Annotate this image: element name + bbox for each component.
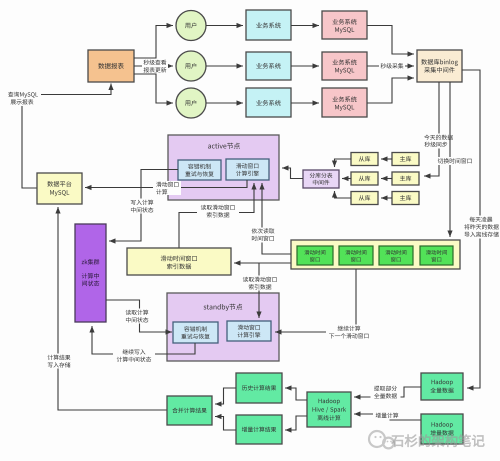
box 从库 1 (slave db) <box>351 153 378 166</box>
label 切换时间窗口 <box>435 157 475 165</box>
box 滑动时间窗口 4 <box>420 246 453 265</box>
box 合并计算结果 <box>167 396 212 425</box>
box 数据库binlog采集中间件 <box>417 50 462 82</box>
wire 业务系统MySQL2 -> binlog中间件 <box>367 63 414 68</box>
label 提取部分 全量数据 <box>371 385 401 400</box>
wire 索引数据 -> standby滑动窗口计算引擎 (读取索引) <box>256 263 261 318</box>
wire 主库2 -> 从库2 <box>381 176 392 181</box>
wire standby容错机制 -> zk集群 (继续写入计算中间状态) <box>89 326 195 354</box>
label 计算结果 写入存储 <box>44 354 74 369</box>
box 业务系统MySQL 2 <box>322 52 367 80</box>
wire 数据平台MySQL -> 数据报表 (query path) <box>22 84 114 189</box>
wire 数据报表 -> 用户1 <box>134 23 173 58</box>
wire 业务系统3 -> 业务系统MySQL3 <box>291 100 319 105</box>
box 业务系统 2 (business system) <box>246 52 291 80</box>
box 业务系统MySQL 1 <box>322 11 367 39</box>
wire zk集群 -> standby容错机制 (读取计算中间状态) <box>106 300 172 335</box>
label 读取计算 中间状态 <box>122 309 152 324</box>
wire Hive离线计算 -> 历史计算结果 <box>285 385 307 400</box>
container standby节点 <box>167 293 279 361</box>
wire 用户1 -> 业务系统1 <box>206 23 243 28</box>
box 历史计算结果 <box>236 373 282 403</box>
box 数据平台MySQL <box>37 173 82 204</box>
wire binlog中间件 -> 主库 (今天的数据同步) <box>424 82 439 179</box>
wire 历史计算结果 -> 合并计算结果 <box>215 388 236 407</box>
circle 用户 3 (user) <box>176 88 206 118</box>
label 秒级采集 <box>379 62 405 70</box>
wire 业务系统MySQL1 -> binlog中间件 <box>367 26 414 57</box>
box 主库 1 (master db) <box>392 153 419 166</box>
box 滑动时间窗口索引数据 <box>127 248 231 275</box>
wire Hive离线计算 -> 增量计算结果 <box>285 416 307 433</box>
circle 用户 2 (user) <box>176 51 206 81</box>
box zk集群 计算中间状态 <box>75 224 106 322</box>
watermark logo 石杉的架构笔记 <box>369 431 484 448</box>
box 业务系统MySQL 3 <box>322 88 367 117</box>
box Hadoop全量数据 <box>421 373 463 400</box>
label 查询MySQL 展示报表 <box>5 92 41 106</box>
box Hadoop增量数据 <box>421 414 463 444</box>
box 增量计算结果 <box>236 415 282 444</box>
wire binlog中间件 -> 滑动窗口容器 (切换时间窗口) <box>447 82 452 237</box>
label 继续计算 下一个滑动窗口 <box>326 325 372 340</box>
wire 容错机制 -> zk集群 (写入计算中间状态) <box>109 170 178 244</box>
label 继续写入 计算中间状态 <box>113 349 155 363</box>
wire 合并计算结果 -> 数据平台MySQL (计算结果写入存储) <box>55 207 167 410</box>
label 秒级查看 报表更新 <box>142 59 168 74</box>
wire binlog中间件 -> Hadoop全量数据 (每天凌晨导入) <box>462 70 480 391</box>
box 业务系统 3 (business system) <box>246 88 291 117</box>
box 主库 2 (master db) <box>392 172 419 185</box>
wire Hadoop全量数据 -> Hive离线计算 (提取部分全量数据) <box>354 387 421 400</box>
label 增量计算 <box>373 412 401 420</box>
label 写入计算 中间状态 <box>127 199 157 214</box>
box 滑动窗口计算引擎 (standby) <box>227 321 271 341</box>
label 每天凌晨 将昨天的数据 导入离线存储 <box>462 216 500 239</box>
wire 主库1 -> 从库1 <box>381 156 392 161</box>
box 滑动窗口计算引擎 (active) <box>226 159 269 180</box>
wire 滑动时间窗口2 -> standby引擎 (继续计算下一个滑动窗口) <box>275 269 356 335</box>
label 依次读取 时间窗口 <box>248 228 278 243</box>
wire 主库3 -> 从库3 <box>381 195 392 200</box>
wire 滑动窗口容器 -> 滑动窗口计算引擎 (依次读取) <box>259 183 291 254</box>
container active节点 <box>168 135 279 200</box>
label 读取滑动窗口 索引数据 <box>197 204 239 219</box>
wire 业务系统MySQL3 -> binlog中间件 <box>367 75 414 103</box>
wire 从库1 -> 分库分表中间件 <box>332 159 351 167</box>
wire 滑动窗口容器 -> 滑动时间窗口索引数据 <box>234 260 291 265</box>
box 滑动时间窗口 1 <box>297 246 333 265</box>
wire 从库2 -> 分库分表中间件 <box>342 176 351 181</box>
box 容错机制重试与恢复 (active) <box>178 160 221 180</box>
wire 滑动窗口计算引擎 -> 数据平台MySQL (滑动窗口计算) <box>85 180 247 190</box>
box 分库分表中间件 <box>303 170 339 188</box>
wire 用户2 -> 业务系统2 <box>206 63 243 68</box>
box Hadoop Hive/Spark 离线计算 <box>307 392 351 427</box>
wire 分库分表中间件 -> active节点 <box>282 165 303 178</box>
box 容错机制重试与恢复 (standby) <box>173 322 218 343</box>
container 滑动时间窗口组 <box>291 240 460 269</box>
box 主库 3 (master db) <box>392 192 419 205</box>
label 滑动窗口 计算 <box>153 181 181 195</box>
label 读取滑动窗口 索引数据 (standby) <box>239 276 281 291</box>
wire Hadoop增量数据 -> Hive离线计算 (增量计算) <box>354 411 421 420</box>
wire 增量计算结果 -> 合并计算结果 <box>215 414 236 430</box>
box 滑动时间窗口 3 <box>379 246 413 265</box>
wire 用户3 -> 业务系统3 <box>206 100 243 105</box>
wire 从库3 -> 分库分表中间件 <box>332 191 351 198</box>
box 滑动时间窗口 2 <box>339 246 373 265</box>
wire 业务系统1 -> 业务系统MySQL1 <box>291 23 319 28</box>
box 数据报表 (data report) <box>88 50 134 82</box>
label 今天的数据 秒级同步 <box>423 134 453 149</box>
wire 数据报表 -> 用户3 <box>134 74 173 106</box>
box 业务系统 1 (business system) <box>246 10 291 40</box>
box 从库 2 (slave db) <box>351 172 378 185</box>
wire 业务系统2 -> 业务系统MySQL2 <box>291 63 319 68</box>
circle 用户 1 (user) <box>176 11 206 41</box>
wire 索引数据 -> 滑动窗口计算引擎 (读取索引) <box>179 183 257 248</box>
wire 数据报表 -> 用户2 <box>134 63 173 68</box>
box 从库 3 (slave db) <box>351 192 378 205</box>
